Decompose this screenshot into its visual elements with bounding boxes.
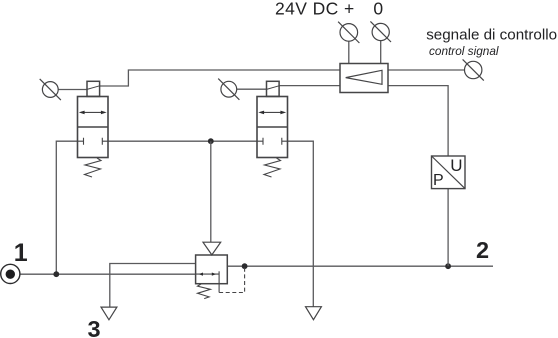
node: junction transducer on output [445, 263, 451, 269]
terminal: 0V supply [370, 21, 391, 42]
svg-text:U: U [450, 156, 462, 175]
regulator inlet triangle [203, 242, 221, 255]
wire: transducer down to output line [447, 189, 449, 267]
wire: terminal to solenoid of valve V1 [58, 89, 87, 91]
label 24V DC + [275, 0, 355, 19]
wire: terminal to solenoid of valve V2 [237, 88, 267, 90]
node: junction supply line [53, 271, 59, 277]
wire: between valve V1 right port and valve V2 left port [108, 140, 257, 142]
wire: amplifier upper-right to control signal terminal [388, 69, 465, 71]
valve V1 flow arrow [79, 111, 107, 115]
node: junction pilot line on output [242, 263, 248, 269]
label segnale di controllo [426, 27, 557, 44]
wire: 0V terminal down to amplifier [380, 41, 382, 64]
svg-text:0: 0 [373, 0, 383, 19]
amplifier U1 [340, 64, 388, 93]
wire: down from junction to regulator inlet triangle [210, 141, 212, 242]
wire: output line regulator to port 2 [227, 265, 493, 267]
transducer P/U [432, 156, 466, 189]
valve V2 proportional solenoid [267, 81, 280, 96]
terminal: electric connection valve V1 [40, 79, 61, 100]
terminal: control signal [463, 59, 484, 80]
label port 1 [14, 239, 28, 267]
svg-text:control signal: control signal [429, 44, 499, 58]
regulator spring [198, 284, 211, 299]
svg-text:3: 3 [88, 316, 101, 338]
valve V1 blocked ports [78, 138, 109, 145]
exhaust triangle 3 [101, 307, 117, 320]
svg-text:segnale di controllo: segnale di controllo [426, 27, 557, 44]
valve V2 flow arrow [258, 111, 286, 115]
valve V1 proportional solenoid [87, 81, 100, 96]
svg-text:P: P [433, 172, 444, 189]
valve V2 spring [264, 158, 281, 177]
regulator pilot line (dashed) [219, 266, 245, 292]
node: junction between valves [208, 138, 214, 144]
terminal: 24V supply [338, 22, 359, 43]
wire: solenoid V1 to amplifier upper-left [100, 70, 340, 86]
wire: solenoid V2 to amplifier lower-left [279, 85, 340, 87]
regulator flow arrow [196, 271, 220, 292]
wire: regulator upper-left port to exhaust 3 [110, 264, 196, 308]
valve V1 body [78, 97, 109, 158]
label control signal [429, 44, 499, 58]
terminal: electric connection valve V2 [218, 79, 239, 100]
wire: 24V terminal down to amplifier [348, 41, 350, 63]
wire: riser from supply junction up to left valve left port [56, 141, 77, 274]
label port 3 [88, 316, 101, 338]
label port 2 [476, 237, 489, 263]
wire: supply line port1 to regulator [20, 273, 196, 275]
port 1 symbol [1, 264, 20, 283]
svg-text:2: 2 [476, 237, 489, 263]
valve V2 blocked ports [257, 138, 288, 145]
exhaust triangle right [306, 307, 322, 320]
label 0 [373, 0, 383, 19]
wire: amplifier lower-right to transducer top [388, 86, 448, 156]
valve V2 body [257, 97, 288, 158]
wire: valve V2 right port to right exhaust [288, 141, 314, 307]
regulator body [196, 255, 228, 284]
valve V1 spring [85, 158, 102, 177]
svg-text:24V DC +: 24V DC + [275, 0, 355, 19]
svg-text:1: 1 [14, 239, 28, 267]
